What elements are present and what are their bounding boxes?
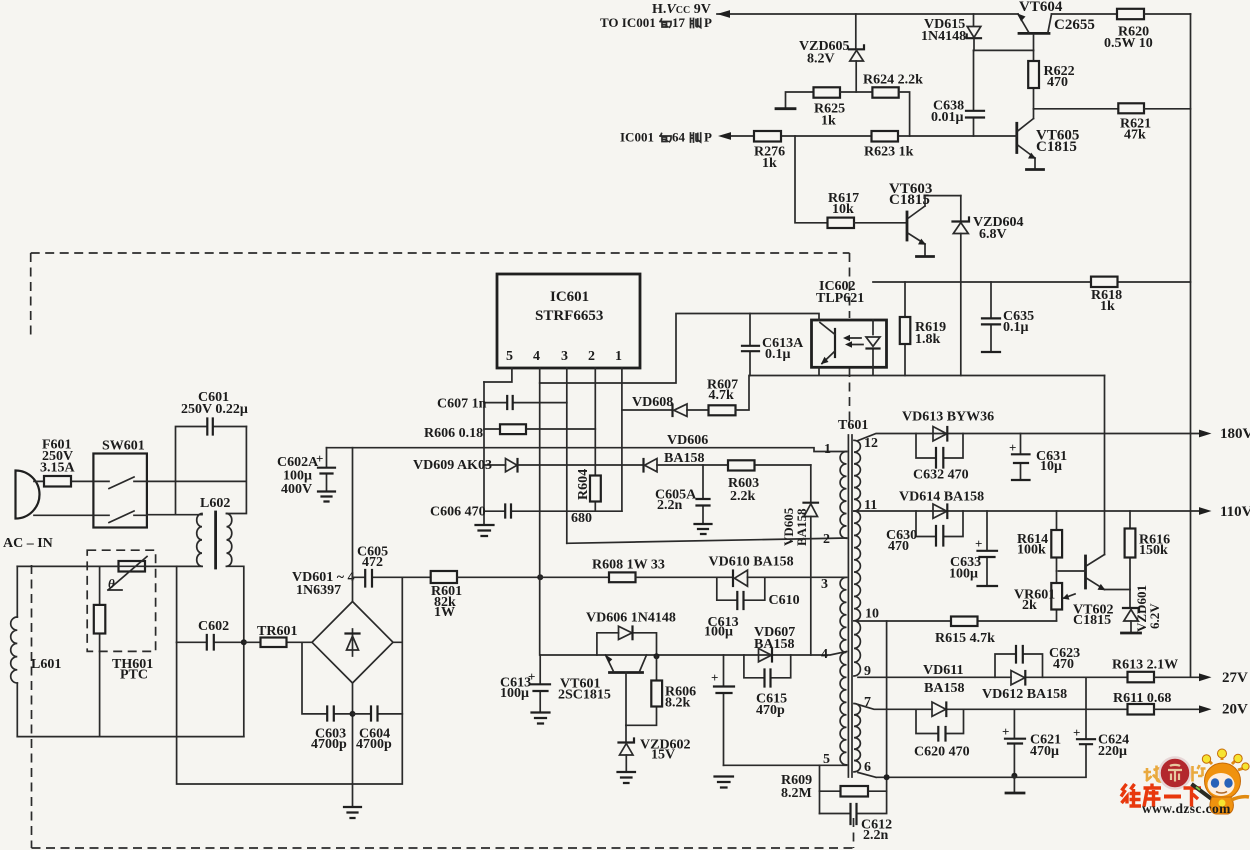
resistor R625 [786,87,873,128]
capacitor C605 [353,545,431,587]
IC op-amp U IC601 STRF6653 [497,274,640,368]
svg-text:100μ: 100μ [500,686,529,701]
svg-text:2: 2 [588,349,595,364]
diode VD606 BA158 [644,433,709,472]
svg-text:250V 0.22μ: 250V 0.22μ [181,402,248,417]
svg-text:L601: L601 [31,657,61,672]
transistor VT603 C1815 [889,181,961,256]
resistor R615 4.7k [858,617,1057,647]
AC-IN plug [3,471,53,552]
svg-text:BA158: BA158 [754,637,794,652]
node C603/C604 row center [350,711,356,717]
wire AC line 2 [34,514,93,516]
wire L602 right bottom down to C602 junction and L601 bottom row [227,566,244,736]
capacitor C632 loop [913,434,969,483]
inductor L601 [11,566,62,736]
svg-text:1k: 1k [1100,299,1115,314]
capacitor C602A [277,448,335,497]
capacitor C613 100u (left) [500,655,550,712]
svg-text:AC – IN: AC – IN [3,536,53,551]
mascot [1142,749,1249,816]
wire bridge bottom to ground [352,683,354,806]
svg-text:R623 1k: R623 1k [864,145,914,160]
capacitor C612 [820,777,893,843]
svg-text:10: 10 [865,607,879,622]
svg-text:R608 1W 33: R608 1W 33 [592,558,665,573]
svg-text:+: + [528,669,535,684]
wire SW601 line1 to C601 box corner [147,427,247,514]
transistor VT601 2SC1815 [558,655,647,726]
zener VZD604 6.8V [953,196,1024,376]
diode VD606 1N4148 loop [586,611,676,657]
wire IC602 bottom pins row [750,367,1105,375]
svg-text:PTC: PTC [120,668,148,683]
node arrow IC001 64 [718,132,731,140]
wire IC602 top-left pin feedback [540,314,819,384]
svg-text:110V: 110V [1220,504,1250,520]
diode VD610 BA158 [709,555,847,587]
svg-text:17: 17 [672,15,686,30]
svg-text:0.1μ: 0.1μ [1003,320,1029,335]
primary side dashed isolation border [31,253,854,848]
wire R608 row pin3 [540,576,609,578]
svg-text:10μ: 10μ [1040,459,1062,474]
svg-text:TR601: TR601 [257,624,297,639]
svg-text:100μ: 100μ [949,567,978,582]
capacitor C623 loop [995,646,1080,677]
svg-text:TO IC001: TO IC001 [600,15,656,30]
transformer T601 primary winding 1-2 [840,452,846,539]
resistor R616 [1125,511,1171,608]
transformer T601 primary winding 3-4-5 [840,577,846,765]
svg-text:BA158: BA158 [924,681,964,696]
capacitor C624 [1073,677,1129,775]
wire 180V rail [858,434,1199,441]
node label TO IC001 17 pin [600,15,712,30]
svg-text:5: 5 [823,752,830,767]
wire bridge top to bus [352,448,354,602]
svg-text:VD614 BA158: VD614 BA158 [899,490,984,505]
svg-text:VD612 BA158: VD612 BA158 [982,687,1067,702]
capacitor C635 [982,282,1034,352]
svg-text:470: 470 [1047,75,1068,90]
wire VT601 collector row pin4 [540,652,846,656]
ground below C621 [1013,776,1015,792]
capacitor C601 [176,390,248,514]
resistor TR601 [244,624,312,647]
red text wei ku yi xia [1121,784,1201,807]
svg-text:IC601: IC601 [550,289,589,305]
wire pin5 branch down to R609/C612 [819,765,821,813]
wire R621 row [1034,108,1119,110]
transformer T601 secondary winding 10-9 [854,621,860,676]
T601 pin number labels [821,436,879,775]
svg-text:8.2k: 8.2k [665,696,691,711]
svg-text:4.7k: 4.7k [709,388,735,403]
capacitor C638 [931,50,984,136]
capacitor C613 100u (right) [704,615,739,765]
svg-text:472: 472 [362,555,383,570]
wire IC601 pin 1 [621,368,623,511]
resistor R607 [707,376,749,416]
svg-text:4: 4 [533,349,540,364]
capacitor C633 [949,511,997,586]
svg-text:180V: 180V [1220,426,1250,442]
svg-text:0.01μ: 0.01μ [931,110,964,125]
diode VD611 BA158 [932,702,946,716]
svg-text:VT604: VT604 [1019,0,1063,15]
svg-text:6: 6 [864,760,871,775]
capacitor C607 [437,396,567,412]
transformer T601 secondary winding 11-10 [854,511,860,621]
capacitor C620 loop [914,709,970,759]
svg-text:470μ: 470μ [1030,744,1059,759]
ground below C605A [695,524,712,534]
svg-text:0.5W 10: 0.5W 10 [1104,36,1153,51]
resistor R624 [863,73,923,137]
transistor VT604 C2655 [1018,0,1095,50]
wire opto feedback down to VT602 collector [1104,376,1106,555]
resistor R621 [1118,103,1190,142]
svg-text:SW601: SW601 [102,439,145,454]
resistor R276 [754,131,785,171]
capacitor C605A [655,465,710,523]
transistor VT602 C1815 [1059,555,1131,629]
svg-text:1k: 1k [821,114,836,129]
node arrow H.Vcc [717,10,730,18]
svg-text:TLP621: TLP621 [816,291,864,306]
svg-text:VD606: VD606 [667,433,708,448]
svg-text:R615 4.7k: R615 4.7k [935,631,995,646]
svg-text:27V: 27V [1222,670,1248,686]
resistor R620 [1104,9,1191,51]
svg-text:R613 2.1W: R613 2.1W [1112,658,1178,673]
svg-text:BA158: BA158 [664,451,704,466]
node arrow 27V [1199,673,1212,681]
capacitor C630 loop [886,511,963,554]
wire secondary 0V bottom rail [858,773,1086,778]
wire secondary ground rail vertical [886,621,888,777]
svg-text:470p: 470p [756,703,785,718]
thermistor TH601 dashed box [87,550,155,651]
diode VD608 [622,395,709,416]
svg-text:0.1μ: 0.1μ [765,347,791,362]
capacitor C603 [311,707,353,753]
resistor R623 [864,131,914,160]
svg-text:θ: θ [108,576,115,591]
svg-text:2: 2 [823,532,830,547]
svg-text:6.2V: 6.2V [1147,603,1162,629]
svg-text:+: + [711,670,718,685]
wire snubber row VD609 to R603 [518,464,811,466]
node C621 bottom junction [1011,773,1017,779]
fuse F601 [40,438,76,487]
svg-text:470: 470 [1053,657,1074,672]
wire VD615 to VT604 base [974,49,1034,51]
ground below VZD602 [618,772,636,783]
svg-text:8.2M: 8.2M [781,786,812,801]
svg-text:R604: R604 [576,469,591,500]
svg-text:1: 1 [824,442,831,457]
resistor R606 [424,424,595,441]
svg-text:1: 1 [615,349,622,364]
node label IC001 64 pin [620,130,712,145]
watermark dzsc logo [1121,749,1249,816]
wire rail to R620 [1052,13,1118,15]
capacitor C613A [742,314,804,376]
diode VD612 BA158 [923,663,1067,702]
svg-text:R624 2.2k: R624 2.2k [863,73,923,88]
switch SW601 [93,439,146,528]
wire 20V feed row [858,705,1128,710]
resistor R606 8.2k [626,656,696,725]
capacitor C631 [1009,434,1067,481]
outlined char pian [1193,765,1206,782]
wire IC601 pin 3 [566,368,568,543]
diode VD605 BA158 vertical [781,465,818,655]
node arrow 180V [1199,430,1212,438]
svg-text:4700p: 4700p [311,737,347,752]
svg-text:150k: 150k [1139,543,1168,558]
svg-text:C1815: C1815 [1073,613,1111,628]
svg-text:1.8k: 1.8k [915,332,941,347]
ground below C602A [318,492,335,502]
svg-text:VD613 BYW36: VD613 BYW36 [902,410,994,425]
svg-text:+: + [1073,725,1080,740]
svg-text:5: 5 [506,349,513,364]
resistor R614 [1017,511,1062,571]
svg-text:VD609 AK03: VD609 AK03 [413,458,492,473]
thermistor TH601 [108,557,153,683]
wire bottom AC return row [17,736,244,738]
zener VZD605 8.2V [799,14,864,92]
ground VT603 emitter [917,255,934,258]
svg-text:+: + [1002,724,1009,739]
svg-text:2.2n: 2.2n [863,828,889,843]
ground below bridge [344,807,361,818]
svg-text:6.8V: 6.8V [979,227,1007,242]
svg-text:3: 3 [821,577,828,592]
svg-text:2.2k: 2.2k [730,489,756,504]
wire IC601 pin 4 [539,368,541,655]
wire IC601 pin 5 [484,368,512,382]
transformer T601 secondary winding 7-6 [854,704,860,772]
svg-text:4700p: 4700p [356,737,392,752]
svg-text:R606 0.18: R606 0.18 [424,426,483,441]
svg-text:P: P [704,130,712,145]
svg-text:C620 470: C620 470 [914,745,970,760]
svg-text:T601: T601 [838,418,868,433]
transistor VT605 C1815 [1017,109,1080,168]
svg-text:STRF6653: STRF6653 [535,308,603,324]
ground below C613 left [532,713,550,724]
svg-text:2SC1815: 2SC1815 [558,688,611,703]
resistor TH601 vertical element [94,566,106,736]
capacitor C606 [430,505,622,520]
svg-text:15V: 15V [651,748,675,763]
svg-text:+: + [316,451,323,466]
svg-text:C602: C602 [198,619,229,634]
diode VD615 1N4148 [921,14,981,50]
node pin6 junction [884,774,890,780]
svg-text:4: 4 [821,647,828,662]
potentiometer VR601 2k [1014,571,1075,621]
svg-text:1N4148: 1N4148 [921,29,966,44]
svg-text:BA158: BA158 [794,508,809,546]
wire pin5 row and ground [724,764,847,766]
wire L602 left bottom to TH601 row [17,565,202,567]
svg-text:20V: 20V [1222,702,1248,718]
diode VD607 BA158 [754,625,795,662]
wire R276 junction down to R617 [795,136,828,223]
wire bridge left drop to C603 row [302,642,327,714]
svg-text:L602: L602 [200,496,230,511]
node R601/R608/pin4 junction [537,574,543,580]
svg-text:C607 1n: C607 1n [437,397,487,412]
resistor R619 [900,282,946,376]
ground R625 left [776,107,795,110]
transformer T601 core [838,418,868,777]
svg-text:470: 470 [888,539,909,554]
resistor R613 [1112,658,1199,683]
svg-text:C610: C610 [769,593,800,608]
wire IC601 pin 2 [594,368,596,465]
svg-text:10k: 10k [832,202,854,217]
wire SW601 line2 to L602 [147,514,202,516]
svg-text:100μ: 100μ [704,625,733,640]
svg-text:+: + [975,536,982,551]
resistor R603 [728,460,759,504]
svg-text:C2655: C2655 [1054,17,1095,33]
svg-text:C1815: C1815 [1036,139,1077,155]
wire pin2 row to T601 pin 2 [567,538,847,543]
diode VD609 AK03 [413,458,518,473]
capacitor C621 [1002,709,1061,775]
capacitor C615 loop [744,655,791,718]
wire IC001-64 row [729,135,1017,137]
resistor R608 [592,558,733,583]
svg-text:VD608: VD608 [632,395,673,410]
resistor R618 [1091,277,1122,314]
svg-text:C632 470: C632 470 [913,468,969,483]
wire right-edge vertical feed [1190,14,1192,677]
diode VD613 BYW36 [902,410,994,442]
svg-text:8.2V: 8.2V [807,52,835,67]
node C602/TR601 junction [241,639,247,645]
svg-text:3.15A: 3.15A [40,461,76,476]
svg-text:+: + [1009,440,1016,455]
svg-text:C606 470: C606 470 [430,505,486,520]
zener VZD602 15V [619,725,691,771]
svg-text:64: 64 [672,130,686,145]
resistor R617 [828,191,908,228]
svg-text:220μ: 220μ [1098,744,1127,759]
transformer T601 secondary winding 12-11 [854,440,860,511]
node label H.Vcc 9V [652,2,711,17]
wire TH601 row [17,565,202,567]
svg-text:1k: 1k [762,156,777,171]
resistor R601 [431,571,541,620]
svg-text:400V: 400V [281,482,312,497]
svg-text:VD611: VD611 [923,663,963,678]
rectifier bridge VD601~4 [292,570,393,683]
svg-text:100k: 100k [1017,543,1046,558]
wire 27V feed row [858,676,1128,678]
node arrow 20V [1199,705,1212,713]
wire left ground rail of pin network [483,382,485,524]
wire H.Vcc 9V rail [717,13,1018,15]
svg-text:IC001: IC001 [620,130,654,145]
svg-text:R611 0.68: R611 0.68 [1113,691,1171,706]
svg-text:P: P [704,15,712,30]
capacitor C602 [177,619,244,650]
zener VZD601 6.2V [1122,585,1163,633]
wire 300V bus C602A to T601 pin1 [327,448,847,452]
ground pin5/C613 [715,777,734,788]
capacitor C610 [717,577,800,609]
svg-text:www.dzsc.com: www.dzsc.com [1142,801,1231,816]
resistor R611 [1113,691,1199,715]
node VT601/R606 junction [654,653,660,659]
svg-text:VD610 BA158: VD610 BA158 [709,555,794,570]
svg-text:47k: 47k [1124,128,1146,143]
inductor L602 common-mode choke [197,496,232,568]
wire AC line 1 [34,480,93,482]
magnifier red circle [1160,758,1191,789]
ground VT605 emitter [1027,168,1044,171]
resistor R622 [1028,50,1074,108]
wire 110V rail [858,510,1199,512]
svg-text:VD606 1N4148: VD606 1N4148 [586,611,676,626]
wire bridge right to frame [177,577,403,784]
outlined char zhao [1144,766,1162,782]
svg-text:2.2n: 2.2n [657,498,683,513]
resistor R604 680 [571,465,601,526]
node arrow 110V [1199,507,1212,515]
svg-text:2k: 2k [1022,598,1037,613]
svg-text:C1815: C1815 [889,192,930,208]
opto-coupler IC602 TLP621 [812,279,887,367]
svg-text:1W: 1W [434,605,455,620]
capacitor C604 [353,707,403,753]
svg-text:1N6397: 1N6397 [296,583,341,598]
wire vertical from TH row down to C602 [176,566,178,642]
svg-text:680: 680 [571,511,592,526]
wire R618 row [873,281,1191,283]
diode VD614 BA158 [899,490,984,519]
resistor R609 8.2M [781,773,887,801]
ground below pin network rail [476,525,494,536]
svg-text:3: 3 [561,349,568,364]
